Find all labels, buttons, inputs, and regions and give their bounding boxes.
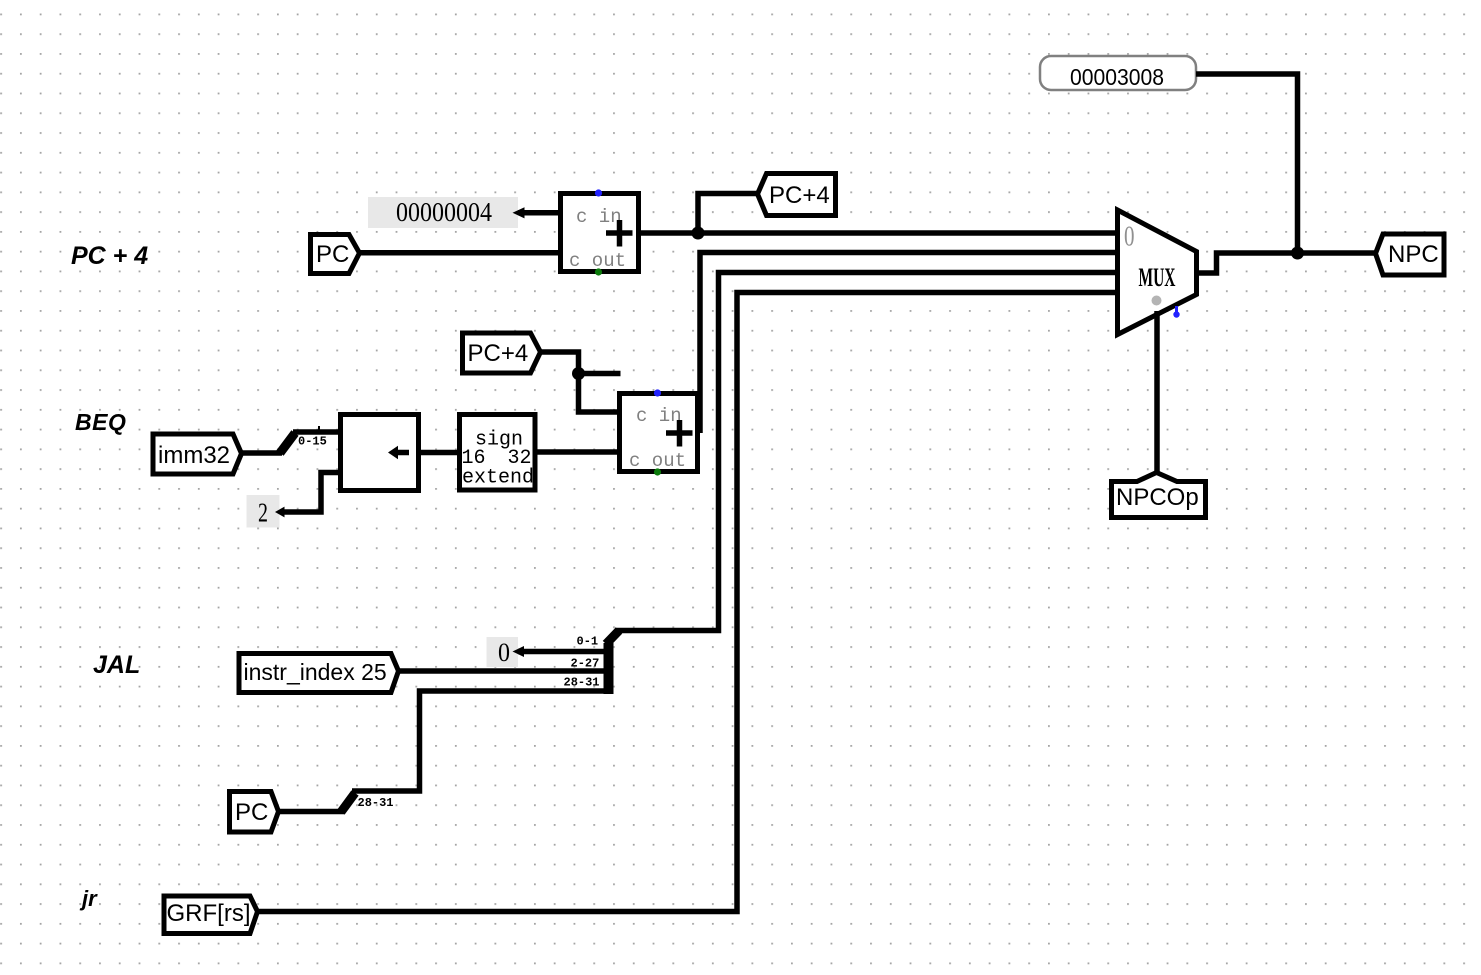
svg-text:0-15: 0-15	[298, 435, 327, 449]
svg-text:extend: extend	[462, 467, 534, 490]
splitter 0-15 (imm32)	[280, 426, 341, 453]
svg-text:PC + 4: PC + 4	[71, 242, 148, 270]
wire PC to splitter 28-31	[279, 809, 344, 815]
wire junction down to adder U2 input	[579, 374, 622, 413]
svg-text:c in: c in	[576, 206, 622, 228]
wire probe 00003008 to junction NPC	[1196, 74, 1298, 253]
output tunnel NPC	[1376, 234, 1445, 275]
svg-text:GRF[rs]: GRF[rs]	[167, 900, 251, 927]
constant 2	[247, 495, 285, 528]
svg-text:2: 2	[258, 498, 268, 528]
wire GRF[rs] to MUX input 3	[258, 293, 1120, 912]
adder U1	[561, 189, 639, 275]
svg-text:NPC: NPC	[1388, 241, 1439, 268]
wire sign extender to adder U2	[535, 449, 621, 455]
wire junction stub right	[579, 371, 621, 377]
svg-text:0: 0	[1124, 222, 1135, 253]
svg-text:00003008: 00003008	[1070, 64, 1164, 90]
input tunnel PC (JAL row)	[230, 792, 279, 833]
svg-text:instr_index 25: instr_index 25	[244, 659, 387, 685]
svg-text:28-31: 28-31	[358, 796, 394, 810]
adder U2	[620, 389, 698, 475]
junction node NPC	[1291, 247, 1304, 260]
wire adder U1 output to MUX input 0	[641, 230, 1120, 236]
wire MUX select to NPCOp	[1154, 311, 1160, 474]
splitter combiner (JAL)	[564, 631, 620, 695]
svg-text:PC: PC	[235, 799, 268, 826]
mux U5 MUX	[1118, 210, 1197, 335]
input tunnel GRF[rs]	[164, 896, 258, 934]
input tunnel instr_index 25	[239, 654, 399, 693]
wire junction up to tunnel PC+4	[698, 194, 759, 236]
wire constant 00000004 to adder U1	[518, 210, 560, 216]
svg-text:c in: c in	[636, 405, 682, 427]
wire shifter to sign extender	[419, 450, 461, 456]
constant 0 (JAL)	[487, 637, 525, 667]
svg-text:28-31: 28-31	[564, 676, 600, 690]
probe 00003008	[1040, 56, 1196, 90]
wire adder U2 output up to MUX input 1	[700, 253, 1120, 434]
wire JAL trunk to MUX input 2	[615, 273, 1120, 631]
output tunnel NPCOp	[1112, 473, 1206, 518]
splitter 28-31 (PC)	[341, 793, 394, 812]
bit extender U4 sign 16-32	[460, 415, 536, 491]
wire constant 0 to splitter branch 0-1	[518, 649, 611, 655]
svg-text:2-27: 2-27	[571, 657, 600, 671]
wire constant 2 to shifter shift input	[281, 473, 341, 513]
wire tunnel PC+4 to junction	[539, 352, 579, 375]
constant 00000004	[368, 197, 525, 228]
wire imm32 to splitter	[242, 450, 282, 456]
junction node PC+4	[692, 227, 705, 240]
svg-text:JAL: JAL	[93, 651, 140, 679]
input tunnel PC+4 (BEQ row)	[463, 333, 541, 373]
svg-text:PC+4: PC+4	[468, 340, 529, 367]
svg-text:0-1: 0-1	[577, 635, 599, 649]
input tunnel PC	[311, 235, 360, 274]
svg-text:imm32: imm32	[158, 442, 230, 469]
svg-text:PC+4: PC+4	[769, 182, 830, 209]
svg-text:00000004: 00000004	[396, 197, 492, 227]
svg-text:MUX: MUX	[1139, 263, 1176, 292]
svg-text:NPCOp: NPCOp	[1116, 484, 1199, 511]
wire instr_index to splitter branch 2-27	[399, 668, 611, 674]
junction node BEQ PC+4	[572, 367, 585, 380]
wire PC to adder U1	[357, 250, 560, 256]
svg-text:BEQ: BEQ	[75, 409, 126, 435]
svg-text:PC: PC	[316, 241, 349, 268]
output tunnel PC+4 (top)	[758, 174, 836, 216]
wire PC 28-31 branch to splitter	[352, 691, 611, 791]
wire MUX output to NPC	[1197, 253, 1377, 273]
svg-text:jr: jr	[79, 886, 98, 911]
shifter U3	[341, 415, 419, 491]
input tunnel imm32	[153, 434, 242, 474]
svg-text:0: 0	[498, 638, 510, 667]
